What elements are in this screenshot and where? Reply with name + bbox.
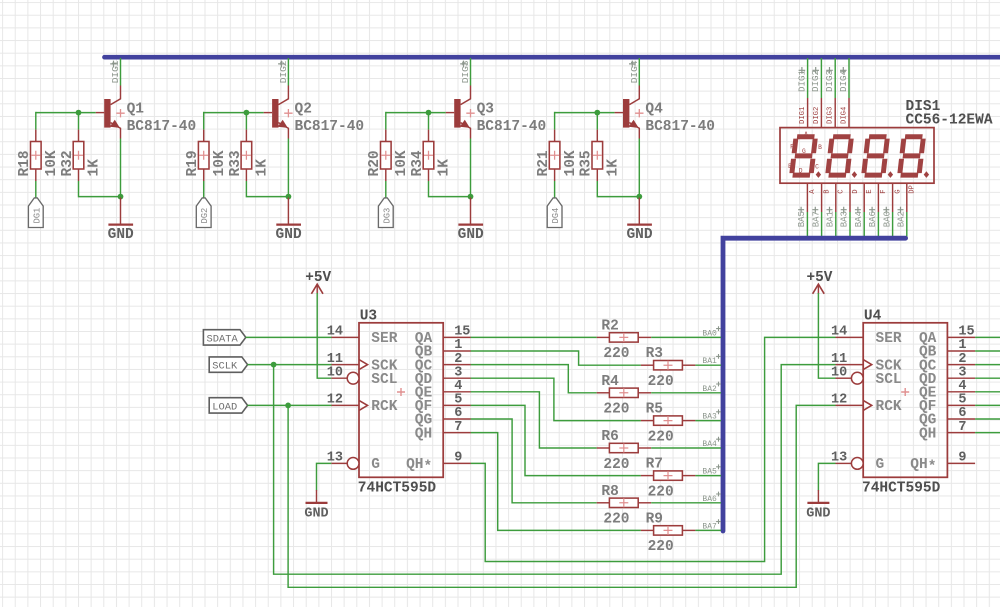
svg-text:R8: R8 <box>601 484 618 500</box>
net label BA6 <box>868 207 878 228</box>
pin 1 QB U4 <box>919 338 975 361</box>
svg-text:DIG4: DIG4 <box>838 69 849 92</box>
pin D (display bottom) <box>850 183 860 212</box>
svg-text:B: B <box>823 189 831 194</box>
svg-text:A: A <box>804 131 808 138</box>
wire U3 QD to R5 <box>471 378 641 420</box>
wire SCLK rail to U4 SCK <box>274 365 836 575</box>
net flag DG2 <box>196 198 211 228</box>
wire G pin to GND (U4) <box>818 463 835 490</box>
ground GND (U3) <box>304 490 328 522</box>
wire R21 top <box>554 112 556 130</box>
net label DIG3 <box>824 67 835 92</box>
net label BA1 <box>826 207 836 228</box>
pin 2 QC U3 <box>415 352 471 375</box>
decimal point 4 <box>924 171 929 178</box>
resistor R34 1K <box>410 130 453 181</box>
input flag LOAD <box>209 398 247 414</box>
svg-text:220: 220 <box>603 402 629 418</box>
resistor R18 10K <box>17 130 60 181</box>
pin A (display bottom) <box>807 183 817 212</box>
wire net DIG4 to bus <box>848 58 850 98</box>
svg-text:GND: GND <box>626 227 652 243</box>
wire R34 bottom to emitter <box>429 181 471 197</box>
net label BA3 <box>702 409 721 421</box>
net label BA6 <box>702 492 721 504</box>
wire net DIG2 to bus <box>820 58 822 98</box>
svg-text:BC817-40: BC817-40 <box>645 119 715 135</box>
pin 10 SCL U4 (inverted) <box>831 365 902 388</box>
svg-text:74HCT595D: 74HCT595D <box>862 481 941 497</box>
net label DIG4 <box>629 60 640 83</box>
svg-text:R4: R4 <box>601 374 619 390</box>
pin G (display bottom) <box>893 183 903 212</box>
input flag SCLK <box>209 357 247 373</box>
wire U3 QH* to U4 SER <box>471 337 836 561</box>
svg-text:QH*: QH* <box>406 457 432 476</box>
svg-text:220: 220 <box>603 346 629 362</box>
ground GND (U4) <box>806 490 830 522</box>
svg-text:BA4: BA4 <box>702 440 717 449</box>
wire R8 to bus net BA6 <box>651 502 721 504</box>
wire +5V to SCL pin <box>818 293 835 378</box>
wire R6 to bus net BA4 <box>651 447 721 449</box>
svg-text:E: E <box>866 189 874 193</box>
svg-text:E: E <box>788 163 792 170</box>
svg-text:GND: GND <box>304 507 328 522</box>
junction emitter/R33 <box>286 194 292 200</box>
svg-text:BA5: BA5 <box>702 468 717 477</box>
wire U4 QB to edge <box>975 350 1000 352</box>
pin 9 QH* U3 <box>406 451 471 476</box>
svg-text:7: 7 <box>958 420 966 435</box>
wire base net DG2 horizontal <box>204 112 264 114</box>
svg-text:DG4: DG4 <box>551 208 561 224</box>
wire U3 QC to R4 <box>471 365 597 393</box>
junction emitter/R34 <box>468 194 474 200</box>
net flag DG1 <box>28 198 43 228</box>
wire R9 to bus net BA7 <box>695 529 721 531</box>
svg-text:RCK: RCK <box>371 399 397 415</box>
svg-text:BA3: BA3 <box>702 413 717 422</box>
svg-text:U4: U4 <box>864 309 882 325</box>
wire R32 top <box>78 112 80 130</box>
svg-text:BA3: BA3 <box>840 211 850 227</box>
wire collector to bus net DIG2 <box>287 58 289 86</box>
resistor R2 220 <box>597 318 652 362</box>
wire R35 bottom to emitter <box>597 181 639 197</box>
net flag DG3 <box>378 198 393 228</box>
svg-text:BA2: BA2 <box>702 385 717 394</box>
svg-text:GND: GND <box>276 227 302 243</box>
svg-text:BA0: BA0 <box>702 329 717 338</box>
pin 3 QD U3 <box>415 365 471 388</box>
svg-text:R19: R19 <box>185 150 201 176</box>
svg-text:220: 220 <box>648 484 674 500</box>
svg-text:BA2: BA2 <box>897 211 907 227</box>
wire LOAD rail to U4 RCK <box>288 405 835 587</box>
ground GND (Q1 emitter) <box>108 198 134 243</box>
svg-text:Q1: Q1 <box>127 102 145 118</box>
wire U4 QA to edge <box>975 336 1000 338</box>
junction emitter/R35 <box>636 194 642 200</box>
svg-text:74HCT595D: 74HCT595D <box>358 481 437 497</box>
wire R20 bottom to flag <box>385 181 387 198</box>
svg-text:QH: QH <box>919 426 936 442</box>
wire R19 top <box>203 112 205 130</box>
svg-text:220: 220 <box>603 457 629 473</box>
svg-text:BA6: BA6 <box>868 211 878 227</box>
pin C (display bottom) <box>836 183 846 212</box>
pin 14 SER U4 <box>831 325 902 348</box>
pin 15 QA U3 <box>415 325 471 348</box>
svg-text:DIG1: DIG1 <box>796 69 807 92</box>
svg-text:Q3: Q3 <box>477 102 494 118</box>
wire net BA5 to lower bus <box>806 212 808 238</box>
net label BA3 <box>840 207 850 228</box>
svg-text:DIG3: DIG3 <box>827 107 835 124</box>
svg-text:R21: R21 <box>536 150 552 176</box>
decimal point 2 <box>852 171 857 178</box>
svg-text:LOAD: LOAD <box>212 401 237 413</box>
pin 10 SCL U3 (inverted) <box>327 365 398 388</box>
wire net BA6 to lower bus <box>877 212 879 238</box>
svg-text:BC817-40: BC817-40 <box>477 119 547 135</box>
svg-text:F: F <box>880 189 888 193</box>
wire U4 QD to edge <box>975 377 1000 379</box>
wire U4 QG to edge <box>975 418 1000 420</box>
pin B (display bottom) <box>822 183 832 212</box>
svg-text:+5V: +5V <box>305 270 331 286</box>
svg-text:G: G <box>802 148 806 155</box>
wire R34 top <box>428 112 430 130</box>
wire emitter down <box>470 139 472 198</box>
resistor R33 1K <box>228 130 271 181</box>
svg-text:GND: GND <box>458 227 484 243</box>
pin 4 QE U4 <box>919 379 975 402</box>
svg-text:QH: QH <box>415 426 432 442</box>
svg-text:R3: R3 <box>646 346 663 362</box>
svg-text:DIG3: DIG3 <box>824 70 835 92</box>
segment letters a-g <box>788 131 822 175</box>
decimal point 1 <box>816 171 821 178</box>
svg-text:1K: 1K <box>87 159 103 177</box>
pin DP (display bottom) <box>907 183 917 212</box>
wire U3 QH to R9 <box>471 433 641 531</box>
svg-text:SCLK: SCLK <box>212 361 238 373</box>
svg-text:10K: 10K <box>44 150 60 176</box>
pin 15 QA U4 <box>919 325 975 348</box>
net label BA1 <box>702 354 721 366</box>
wire SCLK to U3 pin 11 and down-rail to U4 <box>247 364 331 366</box>
svg-text:BA1: BA1 <box>702 357 717 366</box>
bus DIG (top horizontal) <box>105 55 1000 60</box>
wire U4 QH to edge <box>975 432 1000 434</box>
wire net BA2 to lower bus <box>906 212 908 238</box>
resistor R3 220 <box>641 346 696 390</box>
svg-text:DG3: DG3 <box>382 208 392 224</box>
svg-text:R2: R2 <box>601 318 618 334</box>
wire R2 to bus net BA0 <box>651 336 721 338</box>
resistor R7 220 <box>641 457 696 501</box>
pin 3 QD U4 <box>919 365 975 388</box>
wire emitter down <box>287 139 289 198</box>
junction base/R35 <box>594 110 600 116</box>
svg-text:SCL: SCL <box>876 372 902 388</box>
net label BA7 <box>702 519 721 531</box>
pin 9 QH* U4 <box>910 451 975 476</box>
net label BA7 <box>811 207 821 228</box>
wire R5 to bus net BA3 <box>695 420 721 422</box>
wire U4 QC to edge <box>975 364 1000 366</box>
net label DIG2 <box>810 67 821 92</box>
svg-text:BC817-40: BC817-40 <box>127 119 197 135</box>
net label BA0 <box>882 207 892 228</box>
junction base/R32 <box>76 110 82 116</box>
wire net DIG1 to bus <box>807 58 809 98</box>
net label BA5 <box>797 207 807 228</box>
resistor R32 1K <box>60 130 103 181</box>
svg-text:DIG4: DIG4 <box>840 107 848 124</box>
svg-text:10K: 10K <box>394 150 410 176</box>
svg-text:R7: R7 <box>646 457 663 473</box>
wire R3 to bus net BA1 <box>695 364 721 366</box>
svg-text:R32: R32 <box>60 150 76 176</box>
svg-text:BA1: BA1 <box>826 211 836 227</box>
svg-text:BA7: BA7 <box>811 211 821 227</box>
svg-text:DIG2: DIG2 <box>813 107 821 124</box>
ground GND (Q2 emitter) <box>276 198 302 243</box>
supply +5V (U3) <box>305 270 331 294</box>
pin DIG3 (display top) <box>827 98 836 128</box>
pin 4 QE U3 <box>415 379 471 402</box>
net flag DG4 <box>547 198 562 228</box>
svg-text:CC56-12EWA: CC56-12EWA <box>906 112 993 128</box>
wire base net DG1 horizontal <box>36 112 96 114</box>
pin 11 SCK U4 (clock) <box>831 352 902 375</box>
svg-text:10K: 10K <box>212 150 228 176</box>
wire SDATA to U3 pin 14 <box>246 336 332 338</box>
svg-text:SER: SER <box>876 331 902 347</box>
svg-text:D: D <box>799 167 803 174</box>
wire collector to bus net DIG1 <box>120 58 122 86</box>
pin 2 QC U4 <box>919 352 975 375</box>
svg-text:R34: R34 <box>410 150 426 176</box>
svg-text:SDATA: SDATA <box>207 333 239 345</box>
svg-text:R20: R20 <box>367 150 383 176</box>
svg-text:Q2: Q2 <box>295 102 312 118</box>
svg-text:D: D <box>852 189 860 193</box>
net label DIG2 <box>278 60 289 83</box>
wire net BA4 to lower bus <box>863 212 865 238</box>
wire net BA0 to lower bus <box>892 212 894 238</box>
svg-text:R5: R5 <box>646 402 663 418</box>
wire net BA3 to lower bus <box>849 212 851 238</box>
svg-text:BC817-40: BC817-40 <box>295 119 365 135</box>
digit 3 segments <box>864 137 888 175</box>
resistor R21 10K <box>536 130 579 181</box>
wire U3 QA to R2 <box>471 336 597 338</box>
net label BA0 <box>702 326 721 338</box>
svg-text:G: G <box>876 457 885 473</box>
pin DIG4 (display top) <box>840 98 849 128</box>
svg-text:BA7: BA7 <box>702 522 717 531</box>
decimal point 3 <box>888 171 893 178</box>
pin 6 QG U3 <box>415 406 471 429</box>
input flag SDATA <box>203 330 245 346</box>
junction emitter/R32 <box>118 194 124 200</box>
pin DIG1 (display top) <box>799 98 808 128</box>
wire emitter down <box>638 139 640 198</box>
pin 12 RCK U4 (clock) <box>831 393 902 416</box>
svg-text:BA6: BA6 <box>702 495 717 504</box>
wire U3 QF to R7 <box>471 405 641 475</box>
wire R21 bottom to flag <box>554 181 556 198</box>
svg-text:GND: GND <box>108 227 134 243</box>
wire R20 top <box>385 112 387 130</box>
wire R19 bottom to flag <box>203 181 205 198</box>
resistor R5 220 <box>641 402 696 446</box>
junction SCLK <box>271 362 277 368</box>
wire collector to bus net DIG4 <box>638 58 640 86</box>
net label DIG1 <box>796 67 807 92</box>
wire base net DG4 horizontal <box>555 112 615 114</box>
svg-text:220: 220 <box>648 539 674 555</box>
svg-text:DG2: DG2 <box>200 208 210 224</box>
svg-text:B: B <box>818 144 822 151</box>
wire collector to bus net DIG3 <box>470 58 472 86</box>
wire emitter down <box>120 139 122 198</box>
svg-text:1K: 1K <box>437 159 453 177</box>
wire U4 QE to edge <box>975 391 1000 393</box>
wire base net DG3 horizontal <box>386 112 446 114</box>
pin 7 QH U3 <box>415 420 471 443</box>
svg-text:R33: R33 <box>228 150 244 176</box>
pin 14 SER U3 <box>327 325 398 348</box>
wire R7 to bus net BA5 <box>695 475 721 477</box>
svg-text:DIG1: DIG1 <box>110 60 121 83</box>
transistor Q3 BC817-40 <box>446 86 546 139</box>
junction LOAD <box>285 403 291 409</box>
svg-text:G: G <box>371 457 380 473</box>
svg-text:10K: 10K <box>563 150 579 176</box>
svg-text:U3: U3 <box>360 309 377 325</box>
pin 5 QF U4 <box>919 393 975 416</box>
7-segment display DIS1 CC56-12EWA <box>780 99 993 183</box>
pin 11 SCK U3 (clock) <box>327 352 398 375</box>
transistor Q2 BC817-40 <box>264 86 364 139</box>
resistor R35 1K <box>579 130 622 181</box>
resistor R4 220 <box>597 374 652 418</box>
supply +5V (U4) <box>806 270 832 294</box>
wire LOAD to U3 pin 12 <box>247 404 331 406</box>
svg-text:RCK: RCK <box>876 399 902 415</box>
svg-text:DP: DP <box>909 185 917 194</box>
svg-text:R9: R9 <box>646 511 663 527</box>
wire R33 top <box>245 112 247 130</box>
IC U3 74HCT595D <box>358 309 443 497</box>
wire G pin to GND (U3) <box>317 463 332 490</box>
svg-text:1K: 1K <box>255 159 271 177</box>
svg-text:R18: R18 <box>17 150 33 176</box>
resistor R19 10K <box>185 130 228 181</box>
svg-text:SER: SER <box>371 331 397 347</box>
wire R4 to bus net BA2 <box>651 392 721 394</box>
pin 13 G U3 (inverted) <box>327 451 380 474</box>
svg-text:DG1: DG1 <box>32 208 42 224</box>
net label DIG4 <box>838 67 849 92</box>
svg-text:SCL: SCL <box>371 372 397 388</box>
svg-text:A: A <box>809 189 817 194</box>
wire U3 QE to R6 <box>471 392 597 448</box>
digit 4 segments <box>900 137 924 175</box>
pin DIG2 (display top) <box>813 98 822 128</box>
wire net BA1 to lower bus <box>835 212 837 238</box>
wire R18 top <box>35 112 37 130</box>
net label BA4 <box>702 437 721 449</box>
wire net DIG3 to bus <box>834 58 836 98</box>
resistor R6 220 <box>597 429 652 473</box>
net label BA2 <box>897 207 907 228</box>
svg-text:QH*: QH* <box>910 457 936 476</box>
svg-text:C: C <box>838 189 846 194</box>
transistor Q4 BC817-40 <box>615 86 715 139</box>
svg-text:220: 220 <box>648 429 674 445</box>
svg-text:R35: R35 <box>579 150 595 176</box>
resistor R9 220 <box>641 511 696 555</box>
svg-text:9: 9 <box>958 451 966 466</box>
svg-text:220: 220 <box>603 512 629 528</box>
IC U4 74HCT595D <box>862 309 947 497</box>
svg-text:BA0: BA0 <box>882 211 892 227</box>
wire +5V to SCL pin <box>317 293 331 378</box>
ground GND (Q3 emitter) <box>458 198 484 243</box>
wire U3 QG to R8 <box>471 419 597 503</box>
svg-text:R6: R6 <box>601 429 618 445</box>
pin 6 QG U4 <box>919 406 975 429</box>
svg-text:BA5: BA5 <box>797 211 807 227</box>
svg-text:DIG4: DIG4 <box>629 60 640 83</box>
svg-text:DIG3: DIG3 <box>460 60 471 83</box>
svg-text:BA4: BA4 <box>854 211 864 227</box>
net label DIG3 <box>460 60 471 83</box>
svg-text:DIG1: DIG1 <box>799 107 807 124</box>
net label BA2 <box>702 382 721 394</box>
svg-text:DIG2: DIG2 <box>810 70 821 92</box>
svg-text:GND: GND <box>806 507 830 522</box>
wire R33 bottom to emitter <box>246 181 288 197</box>
svg-text:1K: 1K <box>606 159 622 177</box>
svg-text:F: F <box>790 144 794 151</box>
transistor Q1 BC817-40 <box>96 86 196 139</box>
wire R35 top <box>596 112 598 130</box>
svg-text:9: 9 <box>454 451 462 466</box>
net label BA5 <box>702 464 721 476</box>
pin 13 G U4 (inverted) <box>831 451 884 474</box>
wire U4 QF to edge <box>975 404 1000 406</box>
digit 1 segments <box>792 137 816 175</box>
pin 1 QB U3 <box>415 338 471 361</box>
wire R18 bottom to flag <box>35 181 37 198</box>
digit 2 segments <box>828 137 852 175</box>
svg-text:Q4: Q4 <box>645 102 663 118</box>
pin 5 QF U3 <box>415 393 471 416</box>
ground GND (Q4 emitter) <box>626 198 652 243</box>
wire net BA7 to lower bus <box>821 212 823 238</box>
wire U3 QB to R3 <box>471 351 641 365</box>
pin F (display bottom) <box>878 183 888 212</box>
bus BA (lower L-shape) <box>723 238 906 531</box>
